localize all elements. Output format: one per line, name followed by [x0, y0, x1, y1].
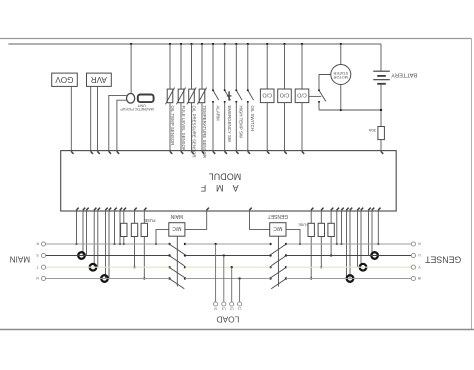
- svg-text:GENSET: GENSET: [424, 254, 461, 264]
- svg-text:C/O: C/O: [280, 92, 290, 98]
- terminal load L3: [222, 302, 226, 311]
- wire fuse to module: [380, 140, 382, 151]
- switch ALARM: [212, 43, 220, 151]
- fuse main F2: [131, 211, 137, 268]
- svg-text:S: S: [37, 253, 39, 257]
- magnetic pickup unit: [120, 94, 154, 111]
- phase line 4 mid segment: [185, 278, 271, 280]
- genset contactor pole 4: [269, 277, 287, 288]
- wire bus to relay 3: [301, 43, 303, 89]
- wire motor starter to rail: [340, 85, 342, 111]
- wire CT4 secondary a: [368, 211, 370, 256]
- svg-text:STATER: STATER: [333, 71, 348, 76]
- wire CT6 secondary a: [346, 211, 348, 279]
- wire bus to relay 1: [266, 43, 268, 89]
- terminal genset W: [411, 276, 421, 281]
- main contactor pole 3: [168, 266, 186, 277]
- terminal main T: [37, 265, 46, 270]
- phase line 3 mid segment: [185, 266, 271, 268]
- svg-text:BATTERY: BATTERY: [391, 71, 417, 77]
- wire CT2 secondary a: [93, 211, 95, 267]
- wire genset sense tap 2: [340, 211, 342, 245]
- terminal load N: [214, 302, 218, 311]
- phase line 1 mid segment: [185, 243, 271, 245]
- label LOAD: [216, 314, 239, 324]
- border frame bottom: [0, 329, 474, 331]
- wire relay 2 to module: [284, 103, 286, 151]
- fuse main F1: [121, 211, 127, 245]
- wire bus to sensor 3: [190, 43, 192, 89]
- svg-text:OIL PRESSURE SENSOR: OIL PRESSURE SENSOR: [191, 106, 196, 158]
- fuse 30A: [369, 127, 385, 140]
- battery BATTERY: [373, 71, 417, 84]
- genset contactor pole 2: [269, 254, 287, 265]
- wire module to genset R: [377, 211, 379, 245]
- svg-text:L2: L2: [230, 306, 234, 310]
- wire relay 1 to module: [266, 103, 268, 151]
- current transformer CT1: [78, 252, 85, 259]
- phase line 1 right segment: [286, 243, 411, 245]
- svg-text:LOAD: LOAD: [216, 314, 239, 324]
- wire CT2 secondary b: [97, 211, 99, 267]
- svg-text:T: T: [37, 265, 39, 269]
- phase line 2 right segment: [286, 255, 411, 257]
- wire bus to battery: [380, 44, 382, 71]
- regulator AVR: [87, 73, 112, 86]
- genset contactor linkage bar: [277, 236, 279, 286]
- wire bus to magnetic pickup: [130, 43, 132, 94]
- terminal main S: [37, 253, 46, 258]
- svg-text:FUSE: FUSE: [144, 218, 155, 223]
- main contactor pole 2: [168, 254, 186, 265]
- main contactor linkage bar: [176, 236, 178, 286]
- sensor FULE LEVEL SENSOR: [176, 88, 186, 152]
- wire sensor 3 to module: [191, 103, 193, 151]
- relay C/O 1: [260, 89, 274, 103]
- motor starter M: [331, 65, 351, 85]
- terminal main R: [36, 242, 46, 246]
- wire bus to sensor 2: [180, 43, 182, 89]
- governor GOV: [52, 73, 78, 86]
- svg-text:M/C: M/C: [273, 225, 283, 231]
- label GENSET: [424, 254, 461, 264]
- svg-text:GOV: GOV: [55, 75, 74, 84]
- label FUSE genset: [298, 222, 309, 226]
- svg-text:L3: L3: [222, 306, 226, 310]
- switch EMERGENCY SW: [224, 43, 232, 151]
- wire GOV to module: [70, 86, 72, 150]
- wire CT6 secondary b: [349, 211, 351, 279]
- terminal genset N: [411, 242, 420, 246]
- svg-text:A M F: A M F: [197, 183, 239, 193]
- wire load drop L2: [231, 266, 233, 302]
- phase line 1 left segment: [46, 243, 170, 245]
- current transformer CT5: [360, 264, 367, 271]
- svg-text:ALARM: ALARM: [215, 106, 220, 121]
- wire CT1 secondary a: [82, 211, 84, 256]
- wire AVR to module 2: [97, 86, 99, 150]
- current transformer CT4: [371, 252, 378, 259]
- wire CT5 secondary a: [357, 211, 359, 267]
- module bottom pin arrows: [76, 208, 380, 211]
- svg-text:M/C: M/C: [172, 225, 182, 231]
- terminal main N: [36, 276, 46, 281]
- wire CT1 secondary b: [86, 211, 88, 256]
- border frame right: [471, 39, 473, 330]
- relay C/O 2: [278, 89, 292, 103]
- svg-text:C/O: C/O: [297, 92, 307, 98]
- switch OIL SWITCH: [247, 43, 255, 151]
- wire module sense tap 2: [119, 211, 121, 245]
- contactor coil M/C GENSET: [268, 213, 289, 236]
- wire bus to motor starter: [340, 43, 342, 65]
- svg-text:MAIN: MAIN: [10, 255, 31, 264]
- svg-text:MODUL: MODUL: [209, 171, 242, 181]
- sensor OIL TEMP SENSOR: [165, 88, 175, 146]
- terminal load L1: [238, 302, 242, 311]
- wire bus to sensor 1: [169, 43, 171, 89]
- svg-text:AVR: AVR: [91, 75, 107, 84]
- fuse main F3: [141, 211, 147, 280]
- wire module to main contactor coil: [185, 211, 207, 229]
- terminal genset U: [411, 253, 420, 258]
- wire bus to relay 2: [283, 43, 285, 89]
- wire bus to sensor 4: [201, 43, 203, 89]
- wire CT3 secondary a: [105, 211, 107, 279]
- border frame top: [0, 38, 472, 40]
- fuse genset F2: [318, 211, 324, 268]
- wire load drop N: [214, 243, 216, 302]
- wire module sense tap 1: [113, 211, 115, 245]
- wire AVR to module 1: [90, 86, 92, 150]
- wire relay 3 to starter switch: [309, 95, 321, 97]
- wire genset sense tap 1: [336, 211, 338, 245]
- label FUSE main: [144, 218, 155, 223]
- wire pickup lead 1 to module: [109, 95, 127, 150]
- starter switch: [318, 75, 331, 111]
- wire CT5 secondary b: [360, 211, 362, 267]
- phase line 2 left segment: [46, 255, 170, 257]
- AMF module box: [61, 151, 397, 211]
- relay C/O 3: [295, 89, 309, 103]
- wire relay 3 to module: [301, 103, 303, 151]
- wire load drop L3: [223, 254, 225, 302]
- phase line 4 left segment: [46, 278, 170, 280]
- switch HIGH TEMP SW: [235, 43, 243, 151]
- svg-text:FUSE: FUSE: [298, 222, 309, 226]
- wire battery to fuse: [380, 85, 382, 127]
- wire DC supply bus: [8, 43, 381, 45]
- AMF module label: [197, 171, 241, 193]
- svg-text:C/O: C/O: [262, 92, 272, 98]
- contactor coil M/C MAIN: [169, 213, 185, 236]
- current transformer CT2: [90, 264, 97, 271]
- fuse genset F1: [308, 211, 314, 280]
- wire sensor 4 to module: [201, 103, 203, 151]
- main contactor pole 1: [168, 243, 186, 254]
- svg-text:MAIN: MAIN: [170, 213, 183, 219]
- genset contactor pole 3: [269, 266, 287, 277]
- phase line 3 right segment: [286, 266, 411, 268]
- svg-text:EMERGENCY SW: EMERGENCY SW: [227, 106, 232, 143]
- svg-text:HIGH TEMP SW: HIGH TEMP SW: [239, 106, 244, 139]
- wire load drop L1: [238, 277, 240, 302]
- terminal load L2: [230, 302, 234, 311]
- wire main coil to neutral: [155, 229, 169, 245]
- genset contactor pole 1: [269, 243, 287, 254]
- svg-text:OIL SWITCH: OIL SWITCH: [250, 106, 255, 131]
- label MAIN: [10, 255, 31, 264]
- svg-text:30A: 30A: [369, 128, 376, 133]
- main contactor pole 4: [168, 277, 186, 288]
- svg-text:W: W: [418, 276, 421, 280]
- wire CT4 secondary b: [371, 211, 373, 256]
- svg-text:L1: L1: [238, 306, 242, 310]
- sensor TEMPERATURE SENSOR: [197, 88, 207, 159]
- svg-text:FULE LEVEL SENSOR: FULE LEVEL SENSOR: [181, 106, 186, 152]
- wire CT3 secondary b: [108, 211, 110, 279]
- sensor OIL PRESSURE SENSOR: [187, 88, 197, 158]
- wire starter rail: [319, 109, 382, 111]
- wire module to main R: [75, 211, 77, 245]
- wire pickup lead 2 to module: [117, 100, 127, 150]
- current transformer CT6: [347, 275, 354, 282]
- wire genset coil to neutral: [286, 229, 301, 245]
- wire sensor 1 to module: [169, 103, 171, 151]
- fuse genset F3: [328, 211, 334, 257]
- module top pin arrows: [71, 151, 383, 154]
- phase line 3 left segment: [46, 266, 170, 268]
- phase line 2 mid segment: [185, 255, 271, 257]
- svg-text:MAGNETIC PICKUP: MAGNETIC PICKUP: [120, 107, 154, 111]
- svg-text:OIL TEMP SENSOR: OIL TEMP SENSOR: [170, 106, 175, 146]
- svg-text:GENSET: GENSET: [268, 213, 289, 219]
- current transformer CT3: [101, 275, 108, 282]
- phase line 4 right segment: [286, 278, 411, 280]
- wire module to genset contactor coil: [250, 211, 270, 229]
- terminal genset V: [411, 265, 420, 270]
- wire sensor 2 to module: [180, 103, 182, 151]
